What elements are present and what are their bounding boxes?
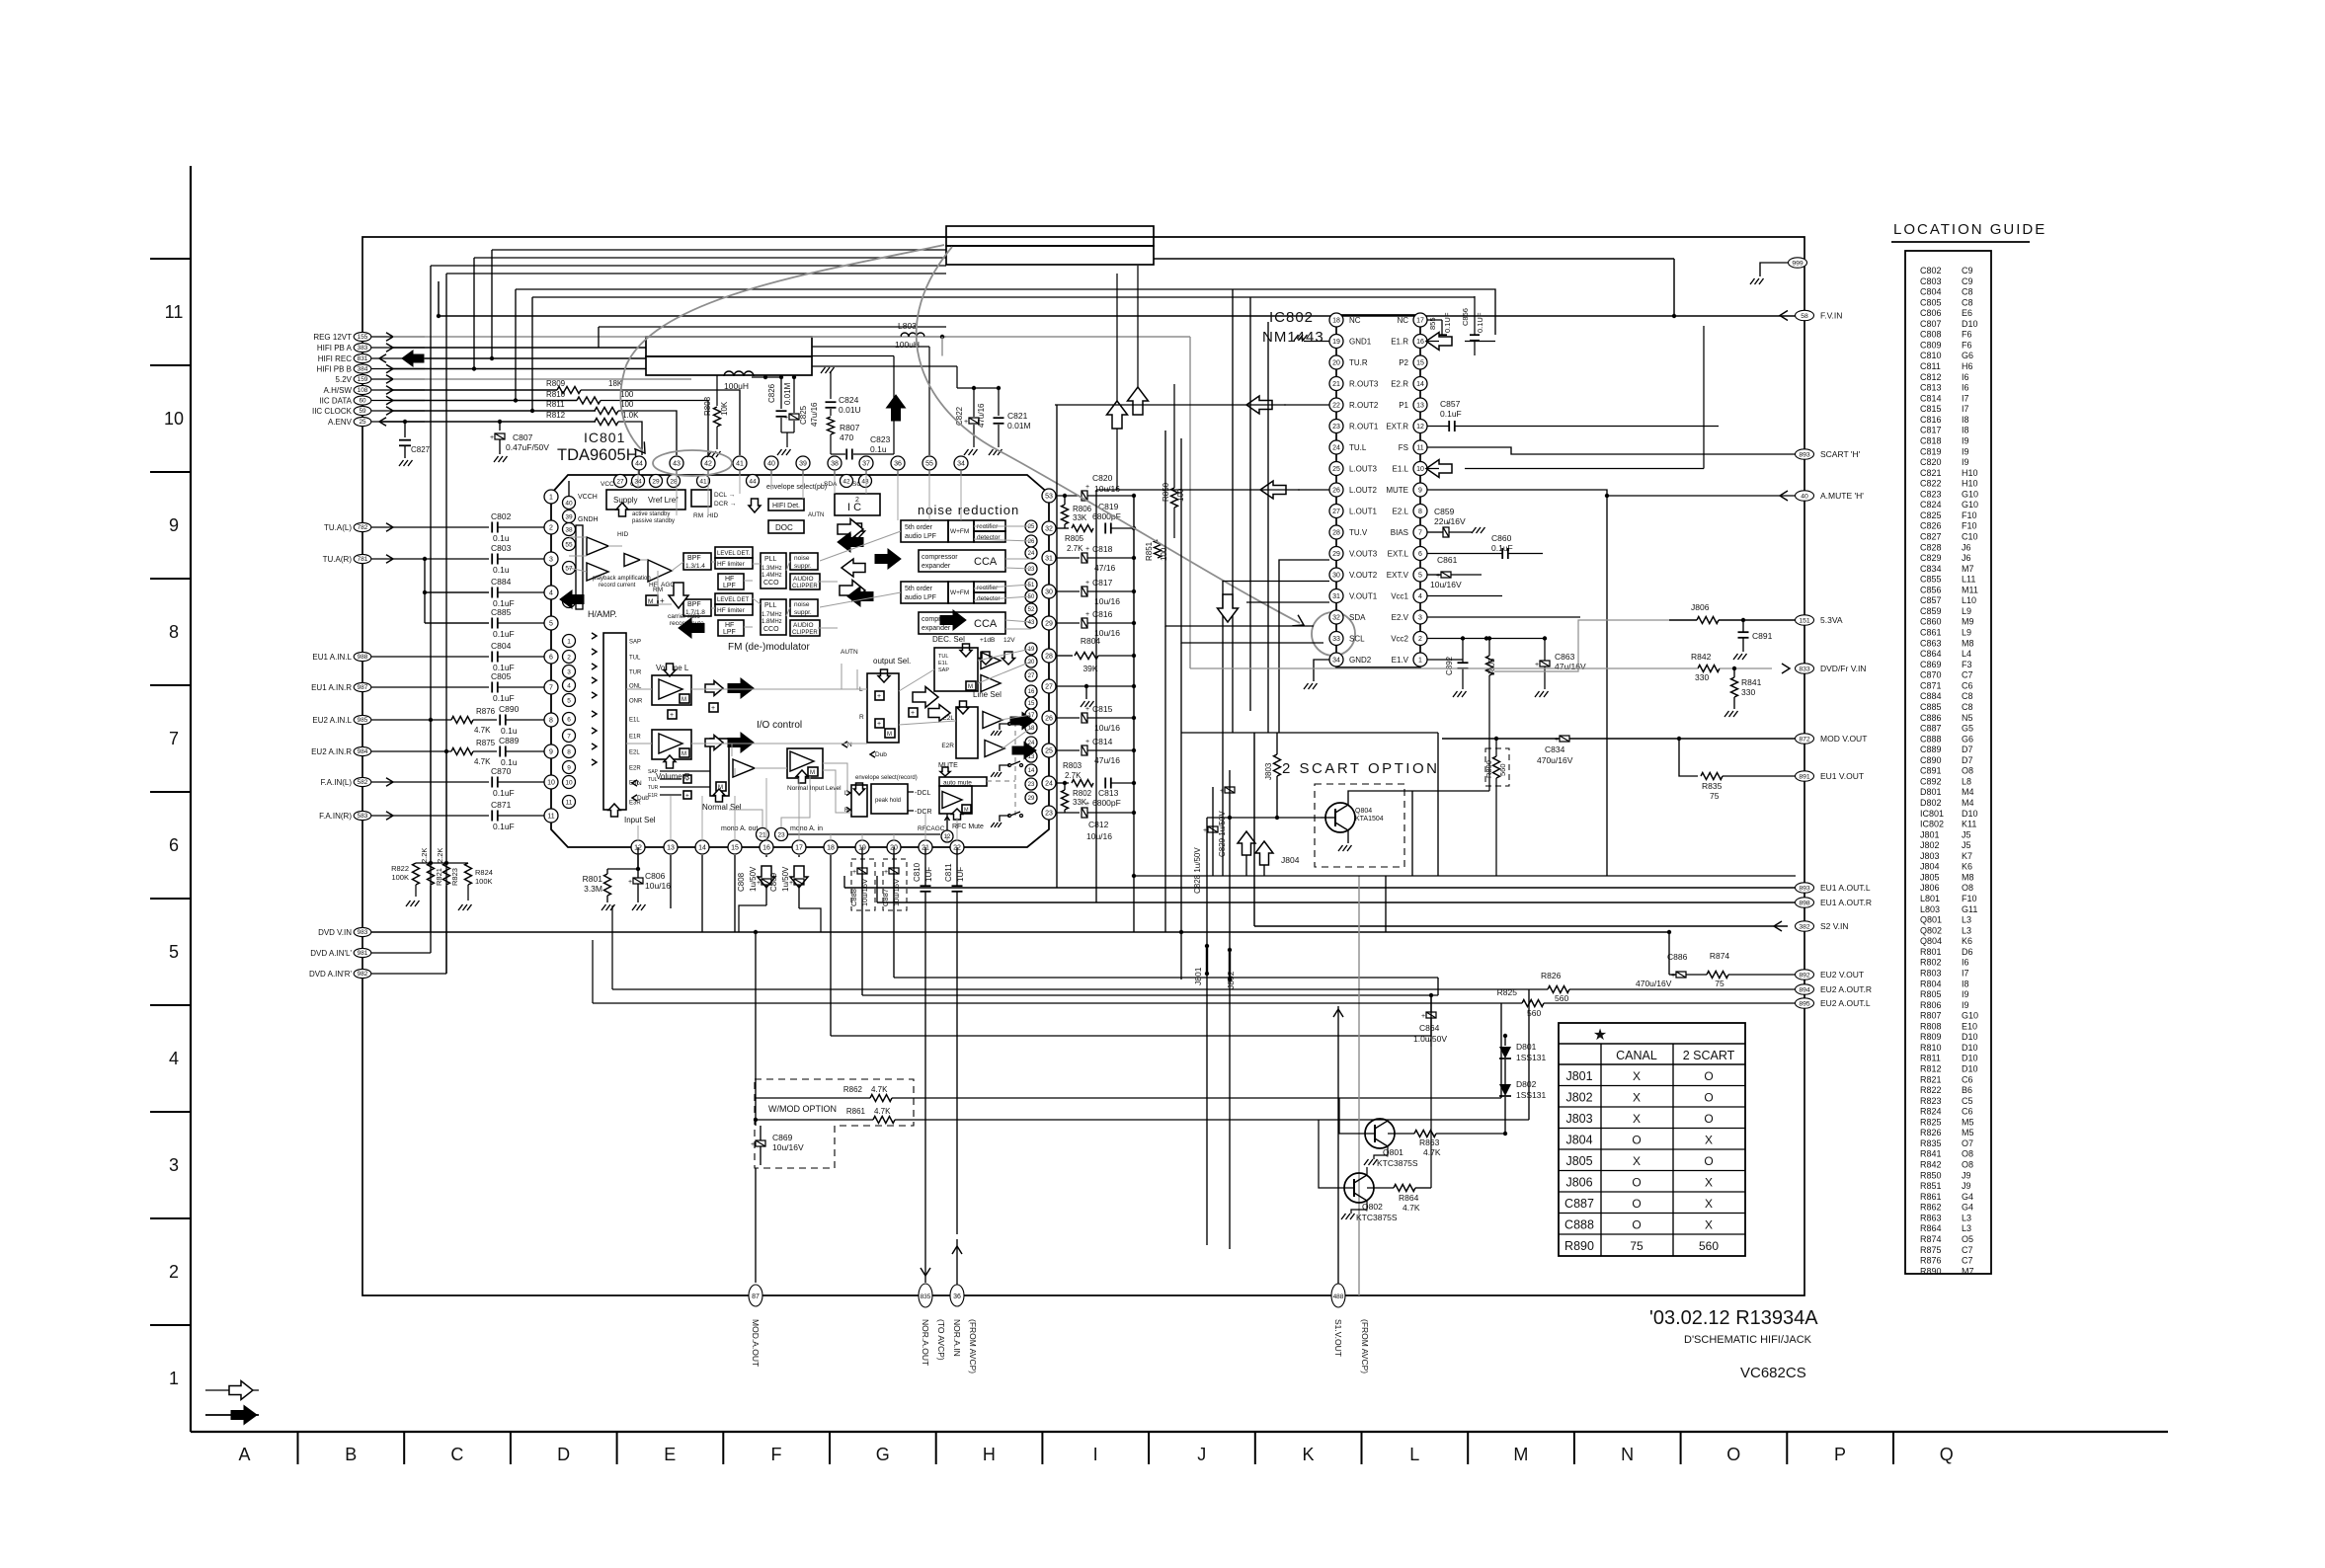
svg-text:R835: R835 bbox=[1920, 1138, 1942, 1148]
resistor R835 75 bbox=[1701, 773, 1723, 780]
svg-text:19: 19 bbox=[1332, 339, 1340, 346]
svg-text:C6: C6 bbox=[1962, 680, 1973, 690]
svg-text:G11: G11 bbox=[1962, 904, 1977, 914]
transistor Q804 KTA1504 bbox=[1325, 803, 1355, 832]
svg-text:H10: H10 bbox=[1962, 479, 1978, 489]
svg-text:28: 28 bbox=[1332, 530, 1340, 537]
svg-text:MUTE: MUTE bbox=[1386, 486, 1408, 495]
svg-text:C887: C887 bbox=[1564, 1197, 1594, 1211]
svg-text:M4: M4 bbox=[1962, 798, 1974, 808]
ground GND2 bbox=[1314, 660, 1329, 681]
arrow open down on C829 column bbox=[1218, 594, 1239, 622]
svg-text:C888: C888 bbox=[1564, 1218, 1594, 1232]
svg-text:SCART 'H': SCART 'H' bbox=[1820, 449, 1861, 459]
svg-text:+: + bbox=[1085, 546, 1089, 553]
svg-text:GND2: GND2 bbox=[1349, 656, 1372, 665]
svg-text:DCL →: DCL → bbox=[714, 492, 735, 499]
svg-text:F.A.IN(L): F.A.IN(L) bbox=[320, 778, 352, 787]
svg-text:I9: I9 bbox=[1962, 989, 1969, 999]
svg-text:6: 6 bbox=[169, 835, 179, 855]
svg-text:+: + bbox=[964, 419, 968, 426]
svg-text:17: 17 bbox=[1416, 318, 1424, 325]
svg-text:C805: C805 bbox=[491, 671, 512, 681]
svg-text:-DCR: -DCR bbox=[915, 809, 932, 816]
svg-text:SAP: SAP bbox=[648, 769, 659, 775]
svg-text:C815: C815 bbox=[1920, 404, 1942, 414]
svg-text:23: 23 bbox=[1028, 567, 1035, 573]
svg-text:1SS131: 1SS131 bbox=[1516, 1090, 1547, 1100]
svg-text:R826: R826 bbox=[1541, 971, 1562, 980]
svg-text:C871: C871 bbox=[1920, 680, 1942, 690]
svg-text:R: R bbox=[859, 714, 864, 721]
svg-text:894: 894 bbox=[1799, 986, 1810, 993]
svg-text:R822: R822 bbox=[1920, 1085, 1942, 1095]
svg-text:10: 10 bbox=[164, 409, 184, 429]
svg-text:I7: I7 bbox=[1962, 404, 1969, 414]
svg-text:58: 58 bbox=[1801, 313, 1808, 320]
svg-text:C861: C861 bbox=[1437, 555, 1458, 565]
svg-text:C820: C820 bbox=[1920, 457, 1942, 467]
svg-text:I6: I6 bbox=[1962, 958, 1969, 968]
resistor R825 560 bbox=[1522, 1000, 1544, 1007]
connector EU2 A.OUT.L (895) bbox=[1796, 998, 1814, 1008]
svg-text:R861: R861 bbox=[1920, 1192, 1942, 1202]
IC802 pin 8 E2.L bbox=[1413, 505, 1427, 518]
svg-text:J: J bbox=[1197, 1445, 1206, 1464]
LOCATION GUIDE table box bbox=[1905, 251, 1991, 1274]
svg-text:1.7MHz: 1.7MHz bbox=[762, 612, 782, 618]
svg-text:782: 782 bbox=[358, 524, 368, 531]
block PLL 1.7MHz CCO bbox=[761, 599, 786, 635]
svg-text:E1.R: E1.R bbox=[1391, 338, 1408, 347]
svg-text:21: 21 bbox=[1332, 381, 1340, 388]
svg-text:LEVEL DET.: LEVEL DET. bbox=[717, 551, 750, 557]
svg-text:R822: R822 bbox=[391, 864, 409, 873]
svg-text:8: 8 bbox=[549, 718, 553, 725]
resistor R801 3.3M bbox=[604, 874, 611, 896]
svg-text:Q802: Q802 bbox=[1362, 1202, 1383, 1212]
wire S2 V.IN bbox=[1254, 925, 1788, 927]
svg-text:L11: L11 bbox=[1962, 575, 1975, 585]
IC802 pin 33 SCL bbox=[1329, 632, 1343, 646]
capacitor C884 0.1uF bbox=[491, 588, 493, 598]
arrows output sel bbox=[913, 687, 938, 708]
wire right cap chain vertical bbox=[1133, 496, 1135, 813]
IC802 pin 9 MUTE bbox=[1413, 483, 1427, 497]
svg-text:M: M bbox=[964, 808, 969, 814]
svg-text:(FROM AVCP): (FROM AVCP) bbox=[968, 1319, 978, 1373]
svg-text:J803: J803 bbox=[1565, 1112, 1592, 1126]
svg-text:10: 10 bbox=[565, 779, 573, 786]
svg-text:C860: C860 bbox=[1491, 533, 1512, 543]
svg-text:D802: D802 bbox=[1516, 1079, 1537, 1089]
svg-text:C859: C859 bbox=[1434, 507, 1455, 516]
svg-text:2: 2 bbox=[549, 525, 553, 532]
svg-text:L3: L3 bbox=[1962, 1213, 1971, 1222]
svg-text:16: 16 bbox=[762, 845, 770, 852]
svg-text:E1.V: E1.V bbox=[1392, 656, 1409, 665]
block AUDIO CLIPPER #2 bbox=[790, 620, 820, 636]
svg-text:C870: C870 bbox=[1920, 670, 1942, 680]
IC802 pin 20 TU.R bbox=[1329, 355, 1343, 369]
svg-text:suppr.: suppr. bbox=[794, 609, 812, 616]
svg-text:R801: R801 bbox=[1920, 947, 1942, 957]
wire right bus vertical bbox=[1804, 237, 1805, 1295]
svg-text:L: L bbox=[1409, 1445, 1419, 1464]
svg-text:HF: HF bbox=[725, 622, 734, 629]
svg-text:(FROM AVCP): (FROM AVCP) bbox=[1360, 1319, 1370, 1373]
svg-text:7: 7 bbox=[549, 685, 553, 692]
svg-text:X: X bbox=[1705, 1218, 1713, 1232]
capacitor C807 0.47uF/50V bbox=[498, 420, 502, 424]
svg-text:6: 6 bbox=[1418, 551, 1422, 558]
capacitor C888 10u/16V optional bbox=[851, 859, 875, 910]
svg-text:+: + bbox=[685, 777, 689, 784]
svg-text:O8: O8 bbox=[1962, 1149, 1973, 1159]
svg-text:D10: D10 bbox=[1962, 319, 1978, 329]
svg-text:560: 560 bbox=[1498, 763, 1507, 776]
svg-text:872: 872 bbox=[1799, 736, 1810, 743]
svg-text:LPF: LPF bbox=[723, 629, 736, 636]
svg-text:TUL: TUL bbox=[648, 777, 658, 783]
svg-text:audio LPF: audio LPF bbox=[905, 533, 936, 540]
svg-text:V.OUT1: V.OUT1 bbox=[1349, 592, 1378, 601]
svg-text:C824: C824 bbox=[1920, 500, 1942, 510]
svg-text:A.H/SW: A.H/SW bbox=[324, 386, 353, 395]
svg-text:895: 895 bbox=[1799, 1000, 1810, 1007]
svg-text:FM (de-)modulator: FM (de-)modulator bbox=[728, 642, 810, 653]
svg-text:+: + bbox=[1085, 739, 1089, 745]
IC801 left pin column bbox=[544, 490, 558, 504]
resistor R890 dashed optional bbox=[1485, 748, 1509, 786]
block HIFI Det bbox=[768, 499, 804, 510]
svg-text:J805: J805 bbox=[1565, 1154, 1592, 1168]
svg-text:C863: C863 bbox=[1555, 652, 1575, 662]
resistor R826 560 bbox=[1548, 986, 1569, 993]
svg-text:833: 833 bbox=[1799, 666, 1810, 672]
svg-text:C823: C823 bbox=[1920, 489, 1942, 499]
svg-text:47u/16: 47u/16 bbox=[810, 402, 819, 427]
svg-text:D10: D10 bbox=[1962, 1043, 1978, 1053]
svg-text:+: + bbox=[711, 705, 715, 712]
svg-text:0.1u: 0.1u bbox=[493, 565, 510, 575]
resistor J803 bbox=[1274, 754, 1281, 776]
svg-text:18: 18 bbox=[827, 845, 835, 852]
connector 999 top bbox=[1789, 258, 1807, 268]
connector SCART 'H' (893) bbox=[1796, 449, 1814, 459]
svg-text:HID: HID bbox=[707, 512, 719, 519]
svg-text:R823: R823 bbox=[450, 868, 459, 886]
svg-text:26: 26 bbox=[1045, 716, 1053, 723]
svg-text:1: 1 bbox=[567, 638, 571, 645]
svg-text:+: + bbox=[1421, 1013, 1425, 1020]
svg-text:C860: C860 bbox=[1920, 617, 1942, 627]
svg-text:TUR: TUR bbox=[629, 670, 642, 676]
svg-text:NC: NC bbox=[1349, 316, 1361, 325]
IC802 pin 12 EXT.R bbox=[1413, 420, 1427, 433]
svg-text:L8: L8 bbox=[1962, 776, 1971, 786]
svg-text:C825: C825 bbox=[799, 405, 808, 425]
capacitor C812 10u/16 bbox=[1057, 812, 1080, 814]
connector A.MUTE 'H' (40) bbox=[1796, 491, 1814, 501]
svg-text:C870: C870 bbox=[491, 766, 512, 776]
wire long vertical left B bbox=[445, 274, 447, 974]
arrow fill left HFLPF bbox=[679, 618, 704, 638]
capacitor C828 1u/50V bbox=[1208, 826, 1218, 832]
resistor R808 10K bbox=[716, 375, 718, 406]
svg-text:HF limiter: HF limiter bbox=[717, 607, 746, 614]
svg-text:S1.V.OUT: S1.V.OUT bbox=[1333, 1319, 1343, 1357]
connector NOR.A.IN (36) bbox=[952, 1246, 962, 1254]
svg-text:D10: D10 bbox=[1962, 1054, 1978, 1063]
svg-text:J6: J6 bbox=[1962, 542, 1971, 552]
svg-text:2.2K: 2.2K bbox=[436, 848, 444, 863]
svg-text:R807: R807 bbox=[1920, 1011, 1942, 1021]
svg-text:R811: R811 bbox=[546, 400, 565, 409]
svg-text:52: 52 bbox=[1028, 607, 1035, 613]
Q804 dashed box bbox=[1315, 784, 1404, 867]
svg-text:C887: C887 bbox=[881, 889, 890, 906]
svg-text:10: 10 bbox=[547, 780, 555, 787]
svg-text:PLL: PLL bbox=[764, 602, 777, 609]
RFCAGC pin 12 bbox=[941, 830, 953, 842]
resistor R850 100 bbox=[1173, 384, 1175, 488]
svg-text:J801: J801 bbox=[1920, 829, 1940, 839]
svg-text:C818: C818 bbox=[1920, 435, 1942, 445]
arrows volume outputs bbox=[728, 678, 754, 698]
wire EU1 A.OUT.L bbox=[844, 887, 1796, 889]
plus boxes outputsel bbox=[875, 691, 884, 700]
svg-text:26: 26 bbox=[1028, 539, 1035, 545]
connector EU2 V.OUT (892) bbox=[1796, 970, 1814, 980]
ruler ticks bottom bbox=[297, 1432, 299, 1464]
svg-text:31: 31 bbox=[1332, 593, 1340, 600]
svg-text:9: 9 bbox=[169, 515, 179, 535]
svg-text:R841: R841 bbox=[1920, 1149, 1942, 1159]
IC802 pin 21 R.OUT3 bbox=[1329, 377, 1343, 391]
svg-text:SAP: SAP bbox=[938, 667, 949, 673]
svg-text:+: + bbox=[1555, 737, 1559, 744]
svg-text:10u/16: 10u/16 bbox=[1094, 596, 1120, 606]
svg-text:10: 10 bbox=[1416, 466, 1424, 473]
svg-text:L801: L801 bbox=[1920, 894, 1940, 903]
svg-text:P2: P2 bbox=[1399, 358, 1408, 367]
svg-text:G5: G5 bbox=[1962, 724, 1973, 734]
svg-text:X: X bbox=[1633, 1069, 1641, 1083]
wire L803 grey bbox=[812, 336, 901, 338]
svg-text:31: 31 bbox=[1045, 556, 1053, 563]
svg-text:O: O bbox=[1704, 1091, 1713, 1105]
svg-text:SCL: SCL bbox=[1349, 635, 1365, 644]
svg-text:C806: C806 bbox=[1920, 308, 1942, 318]
capacitor C834 470u/16V bbox=[1560, 736, 1569, 742]
block AUDIO CLIPPER #1 bbox=[790, 574, 820, 589]
capacitor C815 10u/16 bbox=[1057, 717, 1080, 719]
svg-text:5.3VA: 5.3VA bbox=[1820, 615, 1843, 625]
svg-text:J804: J804 bbox=[1281, 855, 1300, 865]
svg-text:C885: C885 bbox=[491, 607, 512, 617]
svg-text:C827: C827 bbox=[411, 445, 431, 454]
svg-text:R808: R808 bbox=[703, 396, 712, 416]
svg-text:Q804: Q804 bbox=[1920, 936, 1942, 946]
svg-text:C869: C869 bbox=[1920, 660, 1942, 669]
svg-text:981: 981 bbox=[358, 950, 368, 957]
capacitor C823 0.1u bbox=[845, 449, 847, 460]
svg-text:Q: Q bbox=[1940, 1445, 1954, 1464]
svg-text:K: K bbox=[1302, 1445, 1314, 1464]
svg-text:TUL: TUL bbox=[938, 654, 948, 660]
svg-text:+: + bbox=[757, 880, 761, 887]
svg-text:47u/16: 47u/16 bbox=[1094, 755, 1120, 765]
svg-text:10u/16V: 10u/16V bbox=[1430, 580, 1462, 589]
svg-text:I9: I9 bbox=[1962, 435, 1969, 445]
svg-text:C8: C8 bbox=[1962, 297, 1973, 307]
svg-text:+: + bbox=[1671, 973, 1675, 980]
wire L801 row bbox=[752, 376, 781, 378]
RFC mute amp bbox=[939, 786, 972, 814]
legend filled-arrow symbol bbox=[205, 1414, 259, 1416]
resistor R875 4.7K bbox=[425, 750, 451, 752]
amp right outputs bbox=[981, 653, 1001, 669]
svg-text:L10: L10 bbox=[1962, 595, 1976, 605]
svg-text:C802: C802 bbox=[1920, 266, 1942, 275]
svg-text:R835: R835 bbox=[1702, 781, 1723, 791]
svg-text:C834: C834 bbox=[1920, 564, 1942, 574]
svg-text:14: 14 bbox=[1416, 381, 1424, 388]
wire mid lines lower bbox=[831, 978, 1438, 1036]
IC802 pin 11 FS bbox=[1413, 440, 1427, 454]
svg-text:EU2 V.OUT: EU2 V.OUT bbox=[1820, 970, 1864, 980]
svg-text:0.1UF: 0.1UF bbox=[1476, 312, 1484, 333]
switch gnd cells right bbox=[1008, 723, 1011, 726]
capacitor C864 1.0u/50V bbox=[1426, 1012, 1436, 1018]
svg-text:J801: J801 bbox=[1565, 1069, 1592, 1083]
resistor R823 2.2K bbox=[443, 863, 450, 885]
svg-text:record current: record current bbox=[599, 583, 636, 588]
wire HIFI REC bbox=[425, 357, 646, 359]
svg-text:+: + bbox=[1085, 580, 1089, 587]
svg-text:expander: expander bbox=[922, 563, 951, 570]
svg-text:CCO: CCO bbox=[763, 580, 779, 587]
svg-text:L3: L3 bbox=[1962, 925, 1971, 935]
svg-text:4: 4 bbox=[567, 682, 571, 689]
svg-text:X: X bbox=[1705, 1134, 1713, 1147]
svg-text:7: 7 bbox=[169, 729, 179, 748]
svg-text:O: O bbox=[1632, 1176, 1641, 1190]
svg-text:560: 560 bbox=[1555, 993, 1568, 1003]
legend open-arrow symbol bbox=[205, 1389, 259, 1391]
svg-text:C812: C812 bbox=[1920, 372, 1942, 382]
border ruler bottom axis bbox=[191, 1431, 2168, 1433]
svg-text:+: + bbox=[784, 415, 788, 422]
svg-text:LOCATION GUIDE: LOCATION GUIDE bbox=[1893, 221, 2046, 238]
wire Q801 Q802 links bbox=[1319, 1047, 1431, 1188]
svg-text:11: 11 bbox=[566, 799, 573, 806]
svg-text:C855: C855 bbox=[1920, 575, 1942, 585]
capacitor C811 1UF bbox=[952, 885, 963, 887]
svg-text:SAP: SAP bbox=[629, 640, 641, 646]
wire bus nest top-left bbox=[431, 250, 1250, 411]
svg-text:K6: K6 bbox=[1962, 936, 1972, 946]
svg-text:39: 39 bbox=[565, 513, 573, 520]
wire EU2 V.OUT bbox=[1668, 932, 1670, 975]
IC802 pin 3 E2.V bbox=[1413, 610, 1427, 624]
svg-text:R821: R821 bbox=[435, 868, 443, 886]
capacitor C817 10u/16 bbox=[1057, 590, 1080, 592]
svg-text:+: + bbox=[490, 434, 494, 441]
block rectifier detector #1 bbox=[974, 520, 1005, 531]
svg-text:K7: K7 bbox=[1962, 851, 1972, 861]
svg-text:M4: M4 bbox=[1962, 787, 1974, 797]
svg-text:C864: C864 bbox=[1419, 1023, 1440, 1033]
svg-text:suppr.: suppr. bbox=[794, 563, 812, 570]
svg-text:I8: I8 bbox=[1962, 426, 1969, 435]
resistor R824 100K bbox=[465, 863, 472, 885]
svg-text:A: A bbox=[238, 1445, 250, 1464]
svg-text:39: 39 bbox=[799, 461, 807, 468]
svg-text:W+FM: W+FM bbox=[950, 589, 969, 596]
svg-text:envelope select(pb): envelope select(pb) bbox=[766, 484, 827, 491]
svg-text:M: M bbox=[810, 770, 815, 776]
svg-text:59: 59 bbox=[359, 408, 366, 415]
svg-text:+: + bbox=[1085, 706, 1089, 713]
capacitor C802 0.1u bbox=[491, 522, 493, 533]
H/AMP inner bar bbox=[576, 525, 583, 609]
wire pin27 ground bbox=[1057, 685, 1134, 687]
svg-text:L3: L3 bbox=[1962, 915, 1971, 925]
resistor R822 100K bbox=[413, 863, 420, 885]
svg-text:F: F bbox=[771, 1445, 782, 1464]
svg-text:7: 7 bbox=[1418, 530, 1422, 537]
svg-text:O8: O8 bbox=[1962, 883, 1973, 893]
svg-text:noise: noise bbox=[794, 601, 810, 608]
svg-text:R850: R850 bbox=[1920, 1170, 1942, 1180]
resistor R851 100 bbox=[1155, 540, 1162, 558]
svg-text:R812: R812 bbox=[1920, 1064, 1942, 1074]
svg-text:S2 V.IN: S2 V.IN bbox=[1820, 921, 1849, 931]
svg-text:11: 11 bbox=[547, 814, 554, 821]
resistor R864 4.7K bbox=[1367, 1187, 1394, 1189]
svg-text:37: 37 bbox=[862, 461, 870, 468]
svg-text:10u/16: 10u/16 bbox=[1094, 723, 1120, 733]
wire DVD/Fr source grey bbox=[1190, 667, 1669, 669]
svg-text:I7: I7 bbox=[1962, 968, 1969, 978]
svg-text:CLIPPER: CLIPPER bbox=[792, 584, 818, 589]
svg-text:R861: R861 bbox=[846, 1107, 866, 1116]
amp HF AGC bbox=[624, 554, 640, 567]
svg-text:J805: J805 bbox=[1920, 872, 1940, 882]
peak hold box bbox=[871, 784, 908, 814]
capacitor C829 1u/50V bbox=[1225, 787, 1235, 793]
svg-text:C887: C887 bbox=[1920, 724, 1942, 734]
svg-text:4.7K: 4.7K bbox=[1423, 1147, 1441, 1157]
svg-text:1.0u/50V: 1.0u/50V bbox=[1413, 1034, 1447, 1044]
svg-text:J9: J9 bbox=[1962, 1181, 1971, 1191]
svg-text:G6: G6 bbox=[1962, 734, 1973, 744]
svg-text:DEC. Sel: DEC. Sel bbox=[932, 635, 965, 644]
svg-text:C857: C857 bbox=[1920, 595, 1942, 605]
svg-text:C810: C810 bbox=[1920, 351, 1942, 360]
svg-text:M7: M7 bbox=[1962, 1266, 1974, 1276]
svg-text:13: 13 bbox=[1416, 403, 1424, 410]
svg-text:2: 2 bbox=[567, 654, 571, 661]
resistor R874 75 bbox=[1707, 972, 1728, 979]
svg-text:G4: G4 bbox=[1962, 1192, 1973, 1202]
svg-text:R874: R874 bbox=[1920, 1234, 1942, 1244]
svg-text:R875: R875 bbox=[476, 739, 496, 747]
IC802 pin 25 L.OUT3 bbox=[1329, 462, 1343, 476]
svg-text:C812: C812 bbox=[1088, 820, 1109, 829]
